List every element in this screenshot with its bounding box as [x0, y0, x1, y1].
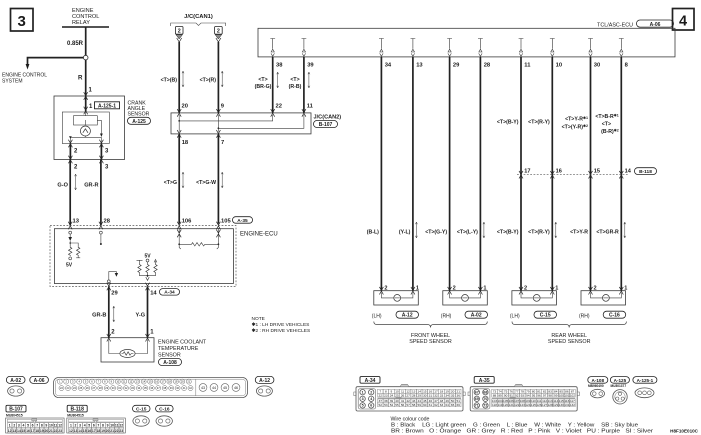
svg-text:64: 64 [445, 403, 449, 407]
svg-text:4: 4 [370, 397, 372, 401]
ECU interior 5V divider network [137, 254, 157, 264]
engine coolant temperature sensor box [101, 334, 154, 362]
svg-text:7: 7 [97, 424, 99, 428]
svg-text:8: 8 [102, 424, 104, 428]
svg-text:2: 2 [594, 285, 597, 291]
svg-text:53: 53 [384, 403, 388, 407]
svg-text:<T>G: <T>G [164, 180, 177, 186]
svg-text:36: 36 [456, 393, 460, 397]
svg-text:ENGINE COOLANT: ENGINE COOLANT [158, 340, 207, 346]
twist arrow [182, 71, 184, 87]
connector B-118 label [635, 168, 657, 175]
svg-text:7: 7 [221, 140, 224, 146]
svg-text:30: 30 [594, 63, 600, 69]
svg-text:<T>(L-Y): <T>(L-Y) [457, 230, 478, 236]
twist arrow [182, 172, 184, 188]
pickup circle element [80, 120, 90, 136]
thermistor element [120, 350, 135, 358]
svg-text:10: 10 [556, 63, 562, 69]
svg-text:98: 98 [548, 393, 552, 397]
svg-text:71: 71 [475, 404, 479, 408]
twist arrow [221, 172, 223, 188]
svg-text:22: 22 [379, 393, 383, 397]
pins 2,3 exit sensor [68, 156, 109, 171]
ECU internal pin 8 [619, 39, 624, 57]
svg-text:2: 2 [384, 285, 387, 291]
svg-text:15: 15 [594, 169, 600, 175]
svg-text:1: 1 [362, 391, 364, 395]
twist arrow [483, 222, 485, 238]
connector B-118 inline crossing [517, 171, 628, 179]
svg-text:28: 28 [484, 63, 491, 69]
front-left wheel speed sensor A-12 [372, 285, 419, 319]
svg-text:69: 69 [475, 397, 479, 401]
connector A-108 face [591, 389, 605, 398]
svg-text:1: 1 [483, 285, 486, 291]
svg-text:2: 2 [217, 29, 220, 35]
svg-text:28: 28 [412, 393, 416, 397]
svg-text:3: 3 [18, 424, 20, 428]
connector A-125-1 face [635, 388, 654, 398]
svg-text:Wire colour code: Wire colour code [391, 416, 430, 422]
svg-text:2: 2 [524, 285, 527, 291]
svg-text:A-35: A-35 [479, 378, 490, 384]
rear-right wheel speed sensor C-16 [579, 285, 627, 319]
svg-text:21: 21 [110, 429, 114, 433]
ECU internal pin 39 [302, 39, 307, 57]
svg-text:<T>(B-Y): <T>(B-Y) [497, 120, 519, 126]
svg-text:25: 25 [395, 393, 399, 397]
connector A-108 label [588, 377, 608, 389]
svg-text:A-108: A-108 [163, 360, 177, 366]
svg-text:SENSOR: SENSOR [158, 353, 181, 359]
note block [252, 316, 311, 334]
svg-text:14: 14 [17, 429, 21, 433]
svg-text:<T>: <T> [602, 122, 611, 128]
connector A-12 face [256, 386, 272, 396]
svg-text:16: 16 [26, 429, 30, 433]
svg-text:(LH): (LH) [510, 314, 520, 320]
svg-text:BR : Brown O : Orange GR :: BR : Brown O : Orange GR : Grey R : Red … [391, 428, 653, 434]
svg-text:5V: 5V [66, 263, 73, 269]
connector A-02 label [6, 376, 25, 384]
svg-text:95: 95 [532, 393, 536, 397]
svg-text:6: 6 [32, 424, 34, 428]
svg-text:A-125-1: A-125-1 [98, 103, 116, 109]
connector A-125-1 label [633, 377, 657, 384]
svg-text:RELAY: RELAY [72, 20, 90, 26]
rear sensors brace [512, 322, 626, 328]
connector B-118 label [67, 405, 87, 417]
signal path to output 3 [97, 120, 103, 137]
svg-text:10: 10 [49, 424, 53, 428]
J/C(CAN1) connector pin 2 left [175, 27, 183, 43]
svg-text:93: 93 [521, 393, 525, 397]
svg-text:A-34: A-34 [164, 290, 175, 296]
svg-text:✱1 : LH DRIVE VEHICLES: ✱1 : LH DRIVE VEHICLES [252, 322, 310, 328]
node splice [83, 55, 88, 60]
svg-text:<T>Y-R: <T>Y-R [570, 230, 588, 236]
svg-text:2: 2 [453, 285, 456, 291]
svg-text:59: 59 [418, 403, 422, 407]
svg-text:102: 102 [570, 393, 575, 397]
svg-text:1: 1 [9, 424, 11, 428]
svg-text:<T>(R-Y): <T>(R-Y) [528, 120, 550, 126]
twist arrow [308, 72, 310, 88]
connector A-125 label [610, 377, 629, 389]
svg-text:(B-L): (B-L) [367, 230, 379, 236]
svg-text:57: 57 [406, 403, 410, 407]
svg-text:19: 19 [101, 429, 105, 433]
resistor pair [66, 246, 80, 268]
svg-text:<T>(G-Y): <T>(G-Y) [425, 230, 447, 236]
svg-text:66: 66 [456, 403, 460, 407]
svg-text:3: 3 [362, 397, 364, 401]
svg-text:96: 96 [537, 393, 541, 397]
svg-text:A-125: A-125 [614, 378, 627, 383]
svg-text:92: 92 [515, 393, 519, 397]
ECU internal pin 30 [588, 39, 593, 57]
svg-text:MU804515: MU804515 [67, 414, 84, 418]
svg-text:A-12: A-12 [259, 378, 270, 384]
wire GR-B to coolant sensor pin 2 [92, 287, 115, 338]
svg-text:63: 63 [440, 403, 444, 407]
svg-text:GR-B: GR-B [92, 313, 106, 319]
svg-text:10: 10 [110, 424, 114, 428]
ECU internal pin 34 [379, 39, 384, 57]
svg-text:5: 5 [27, 424, 29, 428]
svg-text:15: 15 [83, 429, 87, 433]
J/C(CAN1) label and bracket [171, 14, 226, 26]
connector B-107 face [6, 418, 65, 433]
svg-text:3: 3 [18, 13, 26, 30]
svg-text:<T>GR-R: <T>GR-R [596, 230, 619, 236]
svg-text:9: 9 [107, 424, 109, 428]
svg-text:38: 38 [276, 63, 283, 69]
svg-text:29: 29 [453, 63, 460, 69]
svg-text:<T>(R-Y): <T>(R-Y) [528, 230, 550, 236]
twist arrow [415, 222, 417, 238]
wire R to crank angle sensor [78, 60, 93, 96]
rear-left wheel speed sensor C-15 [510, 285, 559, 319]
ECU internal pin 28 [478, 39, 483, 57]
wire CAN R to junction pin 9 [200, 42, 225, 113]
svg-text:REAR WHEEL: REAR WHEEL [551, 333, 587, 339]
svg-text:12: 12 [69, 429, 73, 433]
internal ground line [69, 136, 101, 144]
svg-text:68: 68 [483, 391, 487, 395]
svg-text:33: 33 [440, 393, 444, 397]
svg-text:45: 45 [223, 386, 227, 390]
svg-text:72: 72 [483, 404, 487, 408]
svg-text:19: 19 [40, 429, 44, 433]
pins 2 and 3 at inner box [68, 140, 109, 160]
connector C-16 face [156, 416, 172, 426]
svg-text:(Y-L): (Y-L) [399, 230, 411, 236]
svg-text:8: 8 [41, 424, 43, 428]
svg-text:119: 119 [498, 403, 503, 407]
front wheel speed sensor label [409, 333, 452, 345]
svg-text:4: 4 [84, 424, 86, 428]
svg-text:4: 4 [679, 14, 687, 30]
svg-text:12: 12 [58, 424, 62, 428]
svg-text:1: 1 [624, 285, 627, 291]
twist arrow [277, 72, 279, 88]
svg-text:29: 29 [418, 393, 422, 397]
ECU interior pin13 pull-up network [68, 231, 78, 246]
connector A-35 label at ECU [233, 217, 253, 224]
svg-text:3: 3 [79, 424, 81, 428]
svg-text:G-O: G-O [57, 183, 68, 189]
wire GR-R pin8 to RR sensor [595, 57, 621, 291]
svg-text:18: 18 [182, 140, 189, 146]
wire G-W to ECU pin 105 [196, 134, 231, 224]
svg-text:R: R [78, 75, 83, 82]
svg-text:31: 31 [429, 393, 433, 397]
svg-text:13: 13 [73, 219, 80, 225]
wire G-Y pin29 to FR sensor [425, 57, 449, 291]
svg-text:<T>G-W: <T>G-W [196, 180, 216, 186]
wire G to ECU pin 106 [164, 134, 192, 224]
svg-text:B-107: B-107 [9, 407, 23, 413]
svg-text:TCL/ASC-ECU: TCL/ASC-ECU [597, 22, 633, 28]
junction exits crossings [177, 121, 220, 138]
crank angle sensor title [128, 100, 150, 117]
svg-text:12: 12 [119, 424, 123, 428]
wire Y-R pin30 to RR sensor [562, 57, 591, 291]
svg-text:88: 88 [493, 393, 497, 397]
svg-text:FRONT WHEEL: FRONT WHEEL [411, 333, 450, 339]
svg-text:TEMPERATURE: TEMPERATURE [158, 346, 199, 352]
wire colour code legend [391, 416, 654, 434]
svg-text:C-16: C-16 [159, 407, 170, 413]
pin 1 crossing into sensor [84, 92, 88, 100]
svg-text:MB960490: MB960490 [588, 384, 604, 388]
svg-text:B-118: B-118 [71, 407, 85, 413]
connector A-12 label [255, 376, 274, 384]
svg-text:44: 44 [212, 386, 216, 390]
svg-text:30: 30 [423, 393, 427, 397]
svg-text:65: 65 [451, 403, 455, 407]
svg-text:67: 67 [475, 391, 479, 395]
J/C(CAN1) connector pin 2 right [215, 27, 223, 43]
svg-text:MU801377: MU801377 [611, 384, 627, 388]
svg-text:SPEED SENSOR: SPEED SENSOR [548, 339, 591, 345]
twist arrow [221, 71, 223, 87]
svg-text:21: 21 [49, 429, 53, 433]
connector A-34 label [160, 289, 180, 296]
svg-text:C-15: C-15 [136, 407, 147, 413]
svg-text:13: 13 [416, 63, 423, 69]
svg-text:23: 23 [384, 393, 388, 397]
svg-text:39: 39 [307, 63, 314, 69]
connector A-34 label [360, 377, 380, 384]
rear wheel speed sensor label [548, 333, 591, 345]
ENGINE-ECU box [54, 229, 277, 284]
svg-text:<T>(B): <T>(B) [161, 78, 178, 84]
svg-text:89: 89 [498, 393, 502, 397]
svg-text:16: 16 [556, 169, 562, 175]
svg-text:43: 43 [201, 386, 205, 390]
svg-text:27: 27 [406, 393, 410, 397]
svg-text:18: 18 [96, 429, 100, 433]
junction internal bus 20-22 [178, 115, 272, 122]
svg-text:20: 20 [44, 429, 48, 433]
svg-text:2: 2 [13, 424, 15, 428]
svg-text:<T>(B-Y): <T>(B-Y) [497, 230, 519, 236]
svg-text:35: 35 [451, 393, 455, 397]
svg-text:28: 28 [104, 219, 111, 225]
svg-text:(RH): (RH) [441, 314, 452, 320]
svg-text:(RH): (RH) [579, 314, 590, 320]
connector A-06 face [54, 378, 248, 398]
svg-text:15: 15 [22, 429, 26, 433]
svg-text:13: 13 [12, 429, 16, 433]
svg-text:22: 22 [276, 104, 282, 110]
svg-text:B-118: B-118 [639, 169, 652, 175]
svg-text:(BR-G): (BR-G) [255, 84, 272, 90]
svg-text:105: 105 [221, 218, 231, 224]
svg-text:13: 13 [74, 429, 78, 433]
engine control system label [2, 73, 47, 85]
ECU entry crossings top [68, 222, 72, 230]
svg-text:26: 26 [401, 393, 405, 397]
svg-text:22: 22 [54, 429, 58, 433]
svg-text:6: 6 [93, 424, 95, 428]
svg-text:H8F10E010C: H8F10E010C [670, 428, 699, 433]
ECU internal pin 29 [447, 39, 452, 57]
svg-text:J/C(CAN1): J/C(CAN1) [184, 14, 213, 20]
twist arrow [113, 306, 115, 322]
svg-text:MU804515: MU804515 [6, 414, 23, 418]
ENGINE-ECU dashed boundary [50, 226, 236, 287]
svg-text:<T>: <T> [290, 77, 299, 83]
svg-text:14: 14 [150, 291, 157, 297]
svg-text:SYSTEM: SYSTEM [2, 79, 23, 85]
svg-text:2: 2 [370, 391, 372, 395]
svg-text:46: 46 [234, 386, 238, 390]
svg-text:SPEED SENSOR: SPEED SENSOR [409, 339, 452, 345]
svg-text:70: 70 [483, 397, 487, 401]
svg-text:6: 6 [370, 404, 372, 408]
svg-text:<T>(R): <T>(R) [200, 78, 217, 84]
svg-text:A-125: A-125 [132, 119, 146, 125]
svg-text:14: 14 [78, 429, 82, 433]
branch wire to engine control system [26, 58, 84, 70]
ECU internal pin 11 [519, 39, 524, 57]
ECU interior pin28 stub [100, 231, 103, 245]
svg-text:61: 61 [429, 403, 433, 407]
svg-text:A-06: A-06 [34, 378, 45, 384]
coolant sensor title [158, 340, 207, 359]
svg-text:62: 62 [434, 403, 438, 407]
sheet number 4 [673, 9, 695, 31]
svg-text:✱2 : RH DRIVE VEHICLES: ✱2 : RH DRIVE VEHICLES [252, 328, 311, 334]
connector C-16 label [156, 405, 174, 412]
svg-text:60: 60 [423, 403, 427, 407]
twist arrow [75, 174, 77, 190]
svg-text:54: 54 [390, 403, 394, 407]
connector A-06 label [30, 376, 49, 384]
front sensors brace [374, 322, 488, 328]
twist arrow [624, 222, 626, 238]
svg-text:12: 12 [8, 429, 12, 433]
crank angle sensor box [54, 96, 125, 160]
ECU interior CAN terminating resistor [177, 228, 220, 249]
svg-text:J/C(CAN2): J/C(CAN2) [314, 115, 342, 121]
svg-text:A-06: A-06 [650, 22, 661, 28]
svg-text:20: 20 [106, 429, 110, 433]
svg-text:94: 94 [526, 393, 530, 397]
twist arrow [555, 222, 557, 238]
wire CAN B to junction pin 20 [161, 42, 188, 113]
wire BR-G from pin 38 to junction 22 [255, 57, 282, 113]
svg-text:90: 90 [504, 393, 508, 397]
svg-text:SENSOR: SENSOR [128, 111, 150, 117]
J/C(CAN2) junction box B-107 [171, 113, 341, 134]
svg-text:4: 4 [22, 424, 24, 428]
svg-text:29: 29 [111, 291, 118, 297]
wire R-Y pin10 to RL sensor [528, 57, 552, 291]
svg-text:0.85R: 0.85R [67, 41, 84, 47]
svg-text:11: 11 [115, 424, 119, 428]
svg-text:11: 11 [307, 104, 314, 110]
svg-text:1: 1 [416, 285, 419, 291]
sensor inner box [62, 112, 109, 144]
svg-text:NOTE: NOTE [252, 316, 265, 322]
wire GR-R to ECU pin 28 [84, 160, 101, 226]
connector B-118 face [67, 418, 126, 433]
svg-text:17: 17 [31, 429, 35, 433]
svg-text:11: 11 [54, 424, 58, 428]
junction internal bus 9-11 [218, 115, 304, 129]
svg-text:Y-G: Y-G [135, 313, 145, 319]
connector A-125 label [128, 117, 151, 125]
connector A-35 label [474, 377, 494, 384]
svg-text:A-02: A-02 [471, 313, 482, 319]
sheet number 3 [11, 9, 34, 32]
svg-text:GR-R: GR-R [84, 183, 98, 189]
svg-text:1: 1 [555, 285, 558, 291]
svg-text:11: 11 [524, 63, 531, 69]
svg-text:34: 34 [445, 393, 449, 397]
connector A-34 face [354, 384, 465, 411]
svg-text:C-16: C-16 [609, 313, 620, 319]
wire Y-G to coolant sensor pin 1 [135, 287, 154, 338]
svg-text:52: 52 [379, 403, 383, 407]
pickup coil block [74, 112, 98, 125]
svg-text:23: 23 [58, 429, 62, 433]
svg-text:A-12: A-12 [402, 313, 413, 319]
svg-text:A-35: A-35 [237, 218, 248, 224]
svg-text:ENGINE-ECU: ENGINE-ECU [240, 232, 278, 238]
svg-text:56: 56 [401, 403, 405, 407]
wire L-Y pin28 to FR sensor [457, 57, 481, 291]
svg-text:5: 5 [88, 424, 90, 428]
svg-text:22: 22 [115, 429, 119, 433]
connector C-15 face [133, 416, 149, 426]
connector A-125 face [613, 390, 627, 404]
wire 0.85R from relay [67, 27, 86, 55]
svg-text:24: 24 [390, 393, 394, 397]
svg-text:5: 5 [362, 404, 364, 408]
svg-text:23: 23 [119, 429, 123, 433]
TCL/ASC-ECU title and connector A-06 ref [597, 20, 673, 28]
svg-text:7: 7 [36, 424, 38, 428]
svg-text:20: 20 [182, 104, 188, 110]
wire B-L pin34 to FL sensor [367, 57, 382, 291]
svg-text:5V: 5V [144, 254, 151, 260]
